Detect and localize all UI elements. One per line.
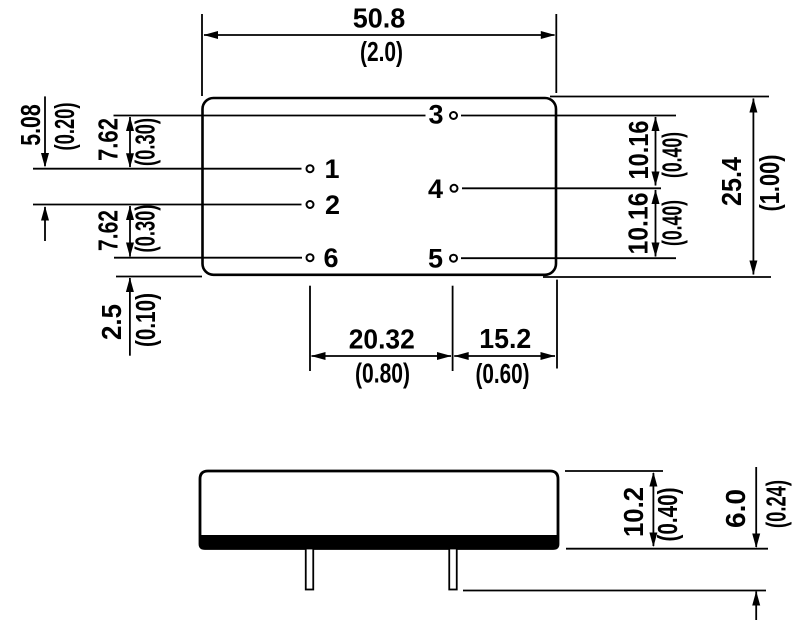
pin 3 leader line left <box>114 115 426 117</box>
arrowhead 2.5 up <box>126 278 134 293</box>
arrowheads 7.62 upper <box>126 117 134 132</box>
svg-text:7.62: 7.62 <box>93 210 124 251</box>
pin 2 leader line <box>33 204 302 206</box>
extension line right (50.8) <box>555 14 557 93</box>
pin 3 circle <box>450 112 457 119</box>
side view body outline <box>200 471 558 549</box>
svg-text:10.16: 10.16 <box>623 193 654 255</box>
svg-text:50.8: 50.8 <box>353 3 406 34</box>
top edge extension line right <box>550 96 769 98</box>
svg-text:2: 2 <box>325 190 340 220</box>
pin 1 circle <box>307 165 314 172</box>
side view base plate (black) <box>200 536 558 549</box>
arrowhead 5.08 down <box>41 153 49 168</box>
dimension line 20.32 <box>312 355 452 357</box>
pin 3 leader line right <box>461 115 676 117</box>
arrowheads 25.4 <box>749 98 757 113</box>
dimension line 10.2 <box>652 473 654 546</box>
svg-text:(0.30): (0.30) <box>130 118 161 166</box>
svg-text:6: 6 <box>323 243 338 273</box>
arrowheads top dimension 50.8 <box>204 31 219 39</box>
svg-text:10.2: 10.2 <box>618 487 649 537</box>
dimension line 10.16 lower <box>655 190 657 257</box>
arrowheads 10.16 lower <box>652 190 660 205</box>
right extension line (15.2) <box>556 280 558 369</box>
svg-text:(0.24): (0.24) <box>761 480 792 528</box>
bottom edge extension line right <box>543 276 771 278</box>
pin 6 leader line <box>114 257 302 259</box>
dimension line 15.2 <box>454 355 555 357</box>
svg-text:(0.40): (0.40) <box>657 200 688 246</box>
pin 5 leader line <box>461 257 676 259</box>
svg-text:15.2: 15.2 <box>479 323 531 354</box>
svg-text:(0.30): (0.30) <box>130 205 161 253</box>
arrowheads 15.2 <box>454 352 469 360</box>
pin 1 leader line <box>33 168 302 170</box>
svg-text:(0.20): (0.20) <box>49 103 80 151</box>
svg-text:(1.00): (1.00) <box>754 155 785 212</box>
side view pin right <box>449 549 457 590</box>
svg-text:20.32: 20.32 <box>349 324 415 355</box>
arrowheads 7.62 lower <box>126 206 134 221</box>
dimension line 50.8 <box>204 34 555 36</box>
dimension line 5.08 lower segment <box>44 207 46 241</box>
extension line left (50.8) <box>201 14 203 96</box>
pin 2 circle <box>307 201 314 208</box>
dimension line 6.0 lower segment <box>755 592 757 621</box>
svg-text:6.0: 6.0 <box>720 489 751 528</box>
body outline (top view) <box>203 98 557 275</box>
bottom edge extension line left <box>116 276 202 278</box>
side bottom edge extension line <box>566 548 768 550</box>
pin 4 leader line <box>462 187 661 189</box>
svg-text:10.16: 10.16 <box>623 121 654 180</box>
arrowheads 10.16 upper <box>652 117 660 132</box>
arrowhead 6.0 up <box>752 591 760 606</box>
svg-text:(0.80): (0.80) <box>355 358 410 389</box>
dimension line 5.08 upper segment <box>44 96 46 166</box>
arrowhead 5.08 up <box>41 206 49 221</box>
side view pin left <box>306 549 314 590</box>
svg-text:3: 3 <box>428 100 443 130</box>
svg-text:(0.10): (0.10) <box>130 293 161 347</box>
svg-text:7.62: 7.62 <box>93 118 124 161</box>
dimension line 25.4 <box>752 99 754 275</box>
arrowhead 6.0 down <box>752 534 760 549</box>
pin 5 circle <box>450 255 457 262</box>
svg-text:4: 4 <box>428 174 443 204</box>
svg-text:25.4: 25.4 <box>716 157 747 206</box>
arrowheads 20.32 <box>311 352 326 360</box>
svg-text:(0.60): (0.60) <box>476 358 530 389</box>
pin 6 circle <box>307 254 314 261</box>
svg-text:(0.40): (0.40) <box>652 488 683 542</box>
dimension line 2.5 <box>129 278 131 356</box>
pin 4 circle <box>451 185 458 192</box>
dimension line 10.16 upper <box>655 117 657 186</box>
svg-text:1: 1 <box>324 154 339 184</box>
svg-text:2.5: 2.5 <box>96 304 127 340</box>
side top edge extension line <box>565 470 663 472</box>
svg-text:(2.0): (2.0) <box>360 36 403 67</box>
arrowheads 10.2 <box>649 472 657 487</box>
svg-text:(0.40): (0.40) <box>657 132 688 178</box>
pin 6 stub extension <box>309 286 311 371</box>
pin bottom extension line <box>463 590 766 592</box>
dimension line 7.62 upper <box>129 117 131 167</box>
svg-text:5: 5 <box>428 244 443 274</box>
dimension line 6.0 upper segment <box>755 467 757 547</box>
pin 5 stub extension <box>452 286 454 371</box>
svg-text:5.08: 5.08 <box>15 104 46 146</box>
dimension line 7.62 lower <box>129 206 131 257</box>
